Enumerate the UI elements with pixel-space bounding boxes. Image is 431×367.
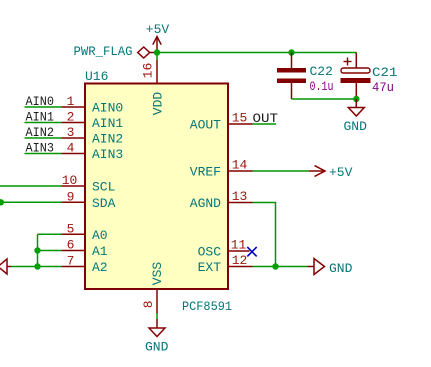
wire VREF bbox=[253, 170, 309, 172]
capacitor C22 bbox=[277, 53, 306, 100]
svg-text:GND: GND bbox=[145, 340, 169, 355]
pin 16 VDD bbox=[141, 60, 158, 84]
wire A2 bbox=[11, 266, 62, 268]
wire SDA bbox=[0, 201, 62, 203]
ground bottom bbox=[149, 319, 165, 337]
wire VSS stub bbox=[156, 314, 158, 320]
wire A group vertical bbox=[37, 234, 39, 266]
svg-text:GND: GND bbox=[344, 119, 368, 134]
junction at C21 bottom bbox=[353, 96, 359, 102]
svg-text:16: 16 bbox=[141, 63, 156, 79]
svg-text:VDD: VDD bbox=[151, 92, 166, 116]
svg-text:+5V: +5V bbox=[329, 165, 353, 180]
svg-text:+5V: +5V bbox=[146, 22, 170, 37]
junction A1 bbox=[34, 247, 40, 253]
svg-text:8: 8 bbox=[141, 300, 156, 308]
junction A2 bbox=[34, 263, 40, 269]
wire AIN0 bbox=[25, 106, 62, 108]
svg-text:0.1u: 0.1u bbox=[310, 79, 334, 94]
pin 12 EXT bbox=[228, 253, 253, 268]
wire VDD stub bbox=[156, 53, 158, 61]
svg-text:AOUT: AOUT bbox=[190, 118, 221, 133]
svg-text:EXT: EXT bbox=[198, 260, 222, 275]
svg-text:AIN1: AIN1 bbox=[26, 110, 55, 125]
svg-text:AIN3: AIN3 bbox=[26, 141, 55, 156]
svg-text:4: 4 bbox=[67, 141, 75, 156]
svg-text:C21: C21 bbox=[372, 65, 398, 80]
svg-text:5: 5 bbox=[67, 221, 75, 236]
svg-text:AGND: AGND bbox=[190, 196, 221, 211]
svg-text:A0: A0 bbox=[92, 228, 108, 243]
svg-text:PCF8591: PCF8591 bbox=[182, 299, 232, 314]
wire AIN2 bbox=[25, 137, 62, 139]
svg-text:AIN1: AIN1 bbox=[92, 116, 123, 131]
svg-text:SCL: SCL bbox=[92, 180, 115, 195]
svg-text:10: 10 bbox=[62, 173, 78, 188]
wire AIN3 bbox=[25, 153, 62, 155]
svg-text:13: 13 bbox=[232, 189, 248, 204]
junction SDA left bbox=[0, 199, 4, 205]
wire AGND bbox=[253, 203, 276, 267]
op-amp U16 body bbox=[85, 84, 228, 290]
pin 7 A2 bbox=[62, 254, 86, 269]
pin 1 AIN0 bbox=[62, 94, 86, 109]
pin 5 A0 bbox=[62, 221, 86, 236]
pin 14 VREF bbox=[228, 158, 253, 173]
svg-text:OSC: OSC bbox=[198, 245, 222, 260]
pin 3 AIN2 bbox=[62, 125, 86, 140]
svg-text:14: 14 bbox=[232, 158, 248, 173]
power +5V right bbox=[309, 166, 325, 177]
svg-text:11: 11 bbox=[231, 238, 247, 253]
svg-text:VSS: VSS bbox=[150, 262, 165, 286]
wire EXT bbox=[253, 266, 308, 268]
power +5V top bbox=[153, 37, 161, 53]
svg-text:15: 15 bbox=[232, 111, 248, 126]
svg-text:OUT: OUT bbox=[253, 111, 279, 126]
svg-text:AIN0: AIN0 bbox=[26, 94, 55, 109]
svg-text:AIN2: AIN2 bbox=[92, 132, 123, 147]
svg-text:AIN0: AIN0 bbox=[92, 101, 123, 116]
pin 9 SDA bbox=[62, 189, 86, 204]
pin 13 AGND bbox=[228, 189, 253, 204]
pin 15 AOUT bbox=[228, 111, 253, 126]
svg-text:9: 9 bbox=[67, 189, 75, 204]
svg-text:12: 12 bbox=[232, 253, 248, 268]
pin 6 A1 bbox=[62, 238, 86, 253]
svg-text:SDA: SDA bbox=[92, 196, 116, 211]
junction at C22 top bbox=[288, 49, 294, 55]
ground left edge bbox=[0, 259, 11, 274]
svg-text:C22: C22 bbox=[310, 64, 333, 79]
no-connect X pin 11 bbox=[247, 247, 256, 256]
power PWR_FLAG bbox=[138, 47, 157, 58]
capacitor C21 bbox=[341, 53, 371, 100]
wire SCL bbox=[0, 185, 62, 187]
svg-text:U16: U16 bbox=[85, 69, 108, 84]
wire A0 bbox=[38, 233, 62, 235]
svg-text:47u: 47u bbox=[372, 80, 394, 95]
pin 10 SCL bbox=[62, 173, 86, 188]
wire +5V top rail bbox=[157, 52, 356, 54]
pin 11 OSC bbox=[228, 238, 250, 253]
svg-text:2: 2 bbox=[67, 110, 75, 125]
wire A1 bbox=[38, 250, 62, 252]
ground under C21 bbox=[348, 99, 364, 116]
junction EXT bbox=[272, 263, 278, 269]
pin 2 AIN1 bbox=[62, 110, 86, 125]
svg-text:3: 3 bbox=[67, 125, 75, 140]
pin 4 AIN3 bbox=[62, 141, 86, 156]
wire AIN1 bbox=[25, 122, 62, 124]
svg-text:6: 6 bbox=[67, 238, 75, 253]
svg-text:AIN2: AIN2 bbox=[26, 125, 55, 140]
ground right bbox=[308, 259, 325, 275]
svg-text:A2: A2 bbox=[92, 260, 108, 275]
pin 8 VSS bbox=[141, 289, 157, 314]
svg-text:1: 1 bbox=[67, 94, 75, 109]
wire capacitor bottom rail bbox=[292, 98, 357, 100]
svg-text:AIN3: AIN3 bbox=[92, 147, 123, 162]
wire OUT bbox=[253, 123, 277, 125]
svg-text:VREF: VREF bbox=[190, 165, 221, 180]
svg-text:PWR_FLAG: PWR_FLAG bbox=[74, 44, 133, 59]
junction at VDD bbox=[154, 49, 160, 55]
svg-text:7: 7 bbox=[67, 254, 75, 269]
svg-text:GND: GND bbox=[329, 261, 353, 276]
svg-text:A1: A1 bbox=[92, 244, 108, 259]
